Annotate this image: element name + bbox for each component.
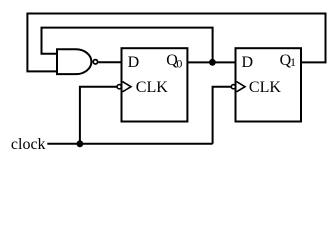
FF1 CLK inversion bubble — [117, 85, 121, 89]
wire: clock branch to FF2 CLK — [213, 87, 232, 144]
wire: inner feedback Q0 to NAND upper input — [42, 28, 213, 63]
flip-flop FF2 box — [236, 48, 302, 121]
wire: Q1 output stub — [301, 61, 326, 63]
node: junction dot on clock wire — [77, 140, 84, 147]
node: junction dot on Q0 wire — [209, 59, 216, 66]
svg-text:D: D — [128, 54, 140, 71]
wire: Q0 output of FF1 to D input of FF2 — [187, 61, 235, 63]
wire: clock branch to FF1 CLK — [80, 87, 117, 144]
svg-text:CLK: CLK — [249, 79, 281, 96]
svg-text:1: 1 — [290, 55, 296, 69]
wire: NAND output to D input of FF1 — [98, 61, 121, 63]
wire: clock input line — [47, 143, 212, 145]
flip-flop FF1 box — [122, 48, 188, 121]
FF2 CLK edge-trigger triangle — [237, 82, 246, 92]
wire: outer feedback Q1 to NAND lower input — [27, 14, 325, 72]
FF2 CLK inversion bubble — [231, 85, 235, 89]
svg-text:CLK: CLK — [136, 79, 168, 96]
svg-text:clock: clock — [11, 136, 46, 153]
FF1 CLK edge-trigger triangle — [123, 82, 132, 92]
NAND gate U1 body — [57, 49, 91, 74]
svg-text:D: D — [242, 54, 254, 71]
svg-text:0: 0 — [176, 57, 182, 71]
NAND gate U1 output inversion bubble — [93, 60, 97, 64]
